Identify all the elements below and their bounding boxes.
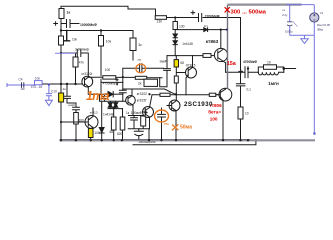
svg-text:100: 100 [94,131,100,135]
inductor 1mgn [258,72,284,75]
wire top rail [61,6,156,18]
svg-text:100: 100 [210,117,218,122]
orange X mark [172,124,178,130]
white box block mid [144,79,158,86]
cap 1mkf driver [164,56,171,87]
resistor 130 vert [174,18,176,35]
diode in y94 [108,92,113,97]
grey top line [228,3,302,5]
wire driver base [167,56,203,95]
yellow resistor 1.4k [60,93,62,140]
svg-text:1мгн: 1мгн [268,81,279,86]
rc block emitter [128,106,149,141]
svg-text:130: 130 [179,25,185,29]
transistor bottom left [85,116,98,129]
capacitor 4700 [245,67,248,78]
transistor kt3102 c [126,96,136,106]
svg-text:кт815Г: кт815Г [137,99,147,103]
transistor KT815 e [186,67,197,78]
svg-text:2к: 2к [138,82,142,86]
diode vertical bottom [99,101,104,140]
grey vertical collector [227,5,229,89]
svg-text:1,4к: 1,4к [60,87,66,91]
svg-text:0,1: 0,1 [247,88,252,92]
resistor 3k [132,31,134,61]
C10 branch [46,85,52,101]
box resistor row77 [88,77,162,94]
svg-text:4700МкФ: 4700МкФ [243,60,257,64]
svg-text:15а: 15а [227,61,237,67]
svg-text:100мкФ: 100мкФ [131,111,143,115]
right rail down [313,35,315,133]
svg-text:68: 68 [110,130,114,134]
svg-text:разб: разб [69,103,76,107]
svg-text:77г: 77г [137,58,141,62]
svg-text:1ma: 1ma [86,89,109,103]
svg-text:1н4148: 1н4148 [103,112,114,116]
transistor KT863 collector [220,30,222,49]
wire left rail [60,19,62,94]
yellow resistor 68 driver [174,60,178,67]
svg-text:2200МкФ: 2200МкФ [205,14,220,18]
wire bias row [61,30,133,32]
wire input row black [42,83,85,85]
texts black small [60,11,279,145]
transistor 2SC1930 d [169,100,180,111]
svg-text:3,900мкф: 3,900мкф [75,48,90,52]
resistor 2k [135,76,146,79]
texts blue small [19,8,331,93]
resistor 10k left [59,36,64,45]
svg-text:1к: 1к [67,11,71,15]
svg-text:кт313: кт313 [90,111,98,115]
plus signs drawn [53,10,243,114]
capacitor C4 [22,82,24,87]
transistor GT806 [219,88,232,101]
svg-text:47к: 47к [79,61,85,65]
svg-text:130: 130 [157,20,163,24]
grey bus bottom [60,139,316,141]
capacitor 10000МкФ [62,20,79,28]
base box gt806 [209,93,216,96]
diode pair 1n4148 bowties [108,103,112,108]
wire y89 mid [123,89,219,100]
svg-text:68: 68 [180,61,184,65]
svg-text:кт3102: кт3102 [137,92,147,96]
svg-text:3к: 3к [138,43,142,47]
svg-text:10к: 10к [72,38,78,42]
resistor 47k [75,53,77,84]
resistor 68 [113,109,115,141]
polar cap plates [287,22,292,26]
resistor 300 [74,113,79,125]
resistor 10 out [258,67,295,72]
svg-text:2.2у: 2.2у [282,13,288,17]
wire y94 short [114,93,123,95]
capacitor 2200 [199,14,202,22]
column x67 caps [64,84,80,140]
wire left col [289,5,291,36]
resistor 100 driver [174,76,178,83]
diode row upper mid [167,17,241,19]
resistor 820 [122,109,124,141]
resistor 130 horiz [155,16,166,20]
column x122 cap [119,90,126,101]
capacitor 3900 [77,50,81,57]
wire y101.3 [100,94,127,101]
svg-text:1мкФ: 1мкФ [159,60,167,64]
svg-text:2SC1930: 2SC1930 [184,101,213,108]
svg-text:300 ... 500ма: 300 ... 500ма [231,9,267,15]
svg-text:С10: С10 [51,90,57,94]
orange circled cap 73 [123,64,164,91]
blue net highlight mid row [55,52,76,54]
svg-text:10: 10 [267,61,271,65]
svg-text:50u: 50u [318,27,323,31]
svg-text:10к: 10к [35,77,41,81]
svg-text:1N: 1N [204,24,208,28]
svg-text:та: та [282,8,285,12]
resistor R 1k [59,9,64,19]
wire cap row y53 [61,53,88,76]
blue input wire [7,81,52,106]
svg-text:10к: 10к [106,40,112,44]
diodes 1n4148 vert [173,34,177,56]
svg-text:10000МкФ: 10000МкФ [80,23,97,27]
svg-text:1000у: 1000у [285,30,293,34]
svg-text:300: 300 [79,119,85,123]
svg-text:470...1К: 470...1К [31,85,43,89]
yellow resistor 100 [90,129,92,141]
svg-text:C4: C4 [19,78,23,82]
svg-text:75u: 75u [164,122,169,126]
wire mid blue [290,34,315,36]
bootstrap wire with diode [175,29,227,31]
svg-text:50ма: 50ма [180,125,192,131]
ground blue [45,100,52,105]
transistor KT863 [214,48,227,61]
svg-text:V1: V1 [320,11,324,15]
base resistor kt863 [203,54,211,58]
capacitor stub 100 [64,31,70,41]
svg-text:1н4148: 1н4148 [182,42,193,46]
red X mark [225,7,230,12]
texts orange / annotations [86,89,192,131]
wire top blue [286,4,314,6]
texts red [208,9,266,121]
resistor box input [35,81,43,85]
box resistor base line [152,94,176,96]
svg-text:820: 820 [117,132,123,136]
LTSpice fragment right [286,5,319,134]
orange circled cap 75u [158,108,166,140]
ground ltspice [301,35,308,43]
svg-text:КТ815: КТ815 [186,64,196,68]
cap 1000mkf [134,129,143,141]
svg-text:бета>: бета> [208,109,221,115]
zobel [236,72,245,140]
transistor kt815g b [143,107,154,118]
output row [226,18,259,73]
cap stub x104.5 [102,94,108,101]
svg-text:1м: 1м [21,87,25,91]
V1 source [313,5,315,36]
svg-text:1000мкфх6в: 1000мкфх6в [138,140,156,144]
svg-text:4700мкф: 4700мкф [103,82,116,86]
orange ellipses [136,64,146,73]
bus line lower return [133,140,256,145]
svg-text:100: 100 [105,68,111,72]
svg-text:кт3102г: кт3102г [82,72,94,76]
resistor 10k mid [100,31,102,76]
transistor KT3102 first [82,76,93,87]
svg-text:кт863: кт863 [206,39,219,45]
svg-text:10: 10 [245,112,249,116]
